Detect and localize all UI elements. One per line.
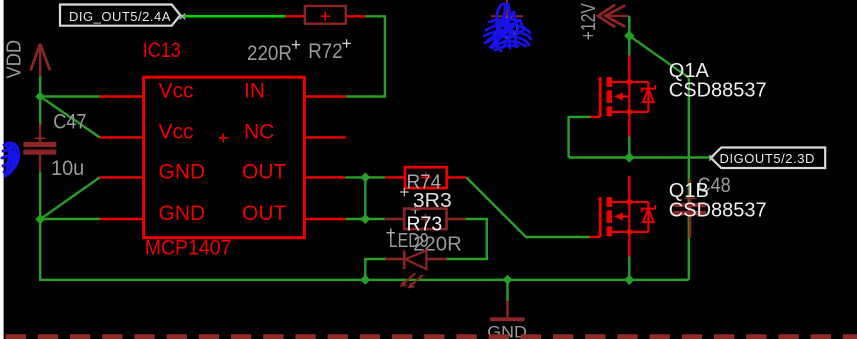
wire node down to ground bus (40, 219, 689, 280)
capacitor C47 (23, 125, 56, 173)
svg-text:MCP1407: MCP1407 (145, 236, 232, 259)
wire R72 to IC IN pin (346, 16, 385, 96)
svg-text:OUT: OUT (242, 160, 287, 183)
svg-text:C47: C47 (53, 111, 86, 134)
capacitor C48 (673, 179, 706, 238)
dashed frame line (bottom) (6, 334, 857, 339)
transistor Q1B (590, 176, 656, 257)
junction node OUT3 (360, 172, 370, 182)
ic IC13 MCP1407 body (100, 77, 346, 238)
wire node to Vcc pin2 (diagonal) (40, 97, 99, 138)
junction node +12V (624, 31, 634, 41)
wire bus to GND symbol (506, 280, 508, 301)
resistor R72 (285, 6, 365, 24)
label 3R3 (value of R74) (411, 190, 452, 214)
svg-text:CSD88537: CSD88537 (669, 79, 767, 101)
wire node to Vcc pin1 (40, 95, 99, 97)
wire R74 to Q1B gate (diagonal) (466, 177, 590, 237)
wire VDD to node (39, 76, 41, 96)
transistor Q1A (590, 56, 656, 137)
wire DIG_OUT5 to R72 (highlighted) (184, 15, 286, 18)
svg-text:IN: IN (244, 80, 265, 103)
blue ink scribble (left edge) (2, 143, 19, 176)
wire R73 to LED (down-left U) (446, 219, 487, 259)
junction node OUT4 (360, 214, 370, 224)
svg-text:Vcc: Vcc (159, 120, 194, 143)
svg-text:220R: 220R (247, 42, 292, 65)
svg-text:GND: GND (159, 160, 206, 183)
junction node DIGOUT (624, 152, 634, 162)
ic IC13 origin cross (219, 133, 228, 142)
wire Q1A source to DIGOUT row (628, 136, 630, 157)
wire Q1A gate (569, 117, 591, 158)
label 220R (value of R72) (247, 40, 300, 64)
resistor R74 (385, 167, 466, 188)
svg-text:OUT: OUT (242, 202, 287, 225)
wire +12V to node (628, 16, 630, 36)
origin cross (scribbled-out part) (491, 0, 523, 28)
svg-text:DIG_OUT5/2.4A: DIG_OUT5/2.4A (69, 9, 171, 24)
svg-text:NC: NC (244, 120, 274, 143)
wire right column vertical (688, 78, 690, 280)
svg-text:VDD: VDD (3, 40, 25, 79)
wire OUT pin4 to node (346, 218, 385, 220)
net flag DIGOUT5/2.3D (711, 148, 826, 169)
junction node bus/Q1B source (624, 275, 634, 285)
wire Q1B source to bus (628, 256, 630, 279)
wire C47 to lower node (39, 173, 41, 220)
svg-text:R72: R72 (308, 40, 342, 63)
supply +12V symbol (598, 5, 629, 28)
resistor R73 (385, 209, 465, 230)
svg-text:CSD88537: CSD88537 (669, 199, 767, 221)
svg-text:DIGOUT5/2.3D: DIGOUT5/2.3D (720, 151, 815, 166)
wire OUT pin3 to node (346, 176, 385, 178)
junction node at C47/GND pins (35, 214, 45, 224)
svg-text:10u: 10u (51, 157, 84, 180)
label LED9 (387, 229, 429, 252)
ground symbol GND (490, 301, 524, 321)
label R72 (308, 39, 351, 63)
junction node bus/GND (503, 275, 513, 285)
wire node diagonal to right column (629, 36, 689, 78)
svg-text:Vcc: Vcc (159, 80, 194, 103)
wire node to Q1A drain (628, 36, 630, 56)
gray circle (scribbled-out part) (498, 18, 518, 38)
wire LED anode to bus (365, 259, 385, 280)
svg-text:IC13: IC13 (143, 39, 181, 62)
ic IC13 pin names (159, 80, 287, 226)
junction node at VDD/Vcc (35, 92, 45, 102)
led LED9 (385, 250, 446, 288)
blue ink scribble (top) (484, 4, 531, 51)
svg-text:GND: GND (159, 202, 206, 225)
junction node bus/LED column (360, 275, 370, 285)
wire node to GND pin4 (40, 218, 99, 220)
net end cross at DIG_OUT5 tip (180, 14, 186, 20)
net flag DIG_OUT5/2.4A (60, 5, 180, 26)
svg-text:+12V: +12V (578, 3, 600, 41)
supply VDD symbol (31, 44, 50, 77)
wire DIGOUT5 row (569, 156, 711, 158)
wire node to GND pin3 (diagonal) (40, 177, 99, 219)
net end cross at DIGOUT5 tip (709, 155, 714, 160)
wire vertical between OUT nodes (364, 177, 366, 219)
label R74 (400, 172, 441, 197)
wire node down to C47 (39, 97, 41, 126)
